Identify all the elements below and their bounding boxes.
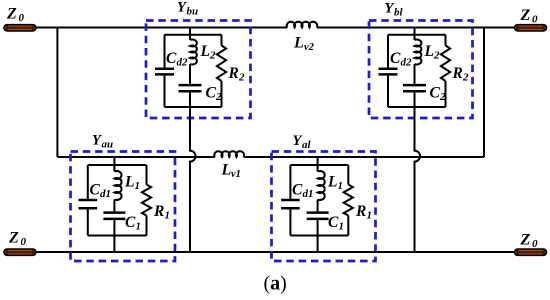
svg-text:Y: Y — [177, 0, 187, 16]
wire Ybu bottom bar — [165, 106, 222, 108]
label R2 (Ybl) — [452, 65, 470, 84]
label R1 (Yal) — [355, 203, 372, 222]
svg-text:Z: Z — [6, 6, 17, 23]
node Yal top stub — [317, 157, 319, 165]
svg-text:Y: Y — [385, 1, 395, 17]
label Ybl — [385, 1, 404, 19]
label Cd2 (Ybu) — [166, 50, 188, 69]
svg-text:Z: Z — [8, 230, 19, 247]
inductor L2 (Ybl middle branch) — [415, 35, 422, 84]
svg-text:L: L — [424, 43, 434, 60]
wire right riser (top rail to middle rail) — [483, 28, 485, 158]
svg-text:1: 1 — [165, 210, 171, 222]
inductor L1 (Yal middle branch) — [318, 165, 325, 211]
svg-text:Z: Z — [520, 7, 531, 24]
svg-text:C: C — [90, 182, 101, 199]
capacitor C2 (Ybu middle branch) — [179, 85, 202, 107]
wire top rail right segment — [317, 27, 515, 29]
wire Yal drop to bottom rail — [317, 236, 319, 253]
svg-text:bl: bl — [394, 7, 404, 19]
label L2 (Ybl) — [424, 43, 441, 62]
wire middle rail segment 1 — [57, 156, 214, 158]
svg-text:L: L — [293, 35, 304, 52]
shunt box Yau dashed outline — [71, 152, 176, 262]
node Ybl top stub — [414, 28, 416, 35]
svg-text:C: C — [206, 85, 217, 102]
wire Yal top bar — [290, 164, 348, 166]
svg-text:d1: d1 — [303, 188, 314, 200]
svg-text:2: 2 — [209, 50, 216, 62]
wire Yau drop to bottom rail — [113, 236, 115, 253]
capacitor Cd1 (Yau left branch) — [79, 165, 98, 236]
svg-text:d2: d2 — [177, 57, 189, 69]
resistor R2 (Ybu right branch) — [217, 35, 226, 107]
capacitor C2 (Ybl middle branch) — [403, 85, 426, 107]
resistor R1 (Yau right branch) — [142, 165, 151, 236]
label Z0 bottom-right — [520, 232, 539, 251]
label Cd2 (Ybl) — [390, 50, 412, 69]
resistor R2 (Ybl right branch) — [441, 35, 450, 107]
label Ybu — [177, 0, 198, 18]
svg-text:1: 1 — [367, 210, 373, 222]
svg-text:d2: d2 — [401, 57, 413, 69]
svg-text:Z: Z — [520, 232, 531, 249]
label Cd1 (Yau) — [90, 182, 112, 201]
capacitor C1 (Yal middle branch) — [307, 213, 329, 236]
svg-text:R: R — [153, 203, 164, 220]
svg-text:al: al — [302, 139, 312, 151]
capacitor Cd2 (Ybl left branch) — [379, 35, 398, 107]
svg-text:0: 0 — [21, 236, 27, 248]
label Lv2 — [293, 35, 315, 54]
svg-text:v1: v1 — [231, 169, 241, 180]
label C1 (Yau) — [125, 214, 141, 233]
svg-text:C: C — [390, 50, 401, 67]
label Cd1 (Yal) — [292, 182, 314, 201]
label C2 (Ybu) — [206, 85, 223, 104]
capacitor C1 (Yau middle branch) — [103, 213, 125, 236]
port Z0 top-right — [515, 25, 547, 31]
node Yau top stub — [113, 157, 115, 165]
svg-text:1: 1 — [136, 221, 142, 233]
svg-text:R: R — [452, 65, 463, 82]
svg-text:v2: v2 — [304, 42, 315, 53]
svg-text:C: C — [328, 214, 339, 231]
svg-text:1: 1 — [338, 180, 344, 192]
label C1 (Yal) — [328, 214, 344, 233]
inductor Lv1 — [214, 151, 244, 157]
wire Ybu top bar — [165, 34, 222, 36]
shunt box Ybu dashed outline — [146, 21, 251, 119]
svg-text:d1: d1 — [100, 188, 111, 200]
port Z0 bottom-right — [515, 249, 547, 255]
wire Ybu drop to bottom rail (hops over middle rail) — [190, 107, 196, 252]
svg-text:C: C — [292, 182, 303, 199]
svg-text:C: C — [125, 214, 136, 231]
svg-text:0: 0 — [532, 238, 538, 250]
label Z0 top-left — [6, 6, 25, 25]
wire top rail left segment — [36, 27, 287, 29]
label L1 (Yau) — [124, 174, 140, 193]
shunt box Ybl dashed outline — [369, 21, 473, 119]
svg-text:2: 2 — [462, 72, 469, 84]
svg-text:L: L — [124, 174, 134, 191]
svg-text:2: 2 — [238, 72, 245, 84]
svg-text:L: L — [200, 43, 210, 60]
svg-text:0: 0 — [532, 14, 538, 26]
wire Ybl top bar — [388, 34, 446, 36]
label C2 (Ybl) — [430, 85, 447, 104]
label Yau — [92, 132, 113, 150]
port Z0 top-left — [4, 25, 36, 31]
wire Yau bottom bar — [88, 235, 147, 237]
svg-text:Y: Y — [92, 132, 102, 148]
label R2 (Ybu) — [228, 65, 246, 84]
label Z0 top-right — [520, 7, 539, 26]
label Z0 bottom-left — [8, 230, 27, 249]
wire left riser (top rail to middle rail) — [56, 28, 58, 158]
svg-text:au: au — [102, 138, 114, 150]
svg-text:L: L — [221, 162, 232, 179]
svg-text:L: L — [327, 174, 337, 191]
label L1 (Yal) — [327, 174, 343, 193]
inductor L2 (Ybu middle branch) — [190, 35, 197, 84]
svg-text:C: C — [166, 50, 177, 67]
svg-text:0: 0 — [19, 12, 25, 24]
label L2 (Ybu) — [200, 43, 217, 62]
wire Yau top bar — [88, 164, 147, 166]
svg-text:2: 2 — [433, 50, 440, 62]
node Ybu top stub — [189, 28, 191, 35]
svg-text:bu: bu — [187, 6, 199, 18]
resistor R1 (Yal right branch) — [344, 165, 353, 236]
svg-text:Y: Y — [293, 133, 303, 149]
port Z0 bottom-left — [4, 249, 36, 255]
wire middle rail segment 2 — [244, 156, 484, 158]
label R1 (Yau) — [153, 203, 170, 222]
wire Ybl drop to bottom rail (hops over middle rail) — [415, 107, 421, 252]
svg-text:1: 1 — [339, 221, 345, 233]
wire Ybl bottom bar — [388, 106, 446, 108]
wire Yal bottom bar — [290, 235, 348, 237]
label Lv1 — [221, 162, 241, 181]
svg-text:R: R — [228, 65, 239, 82]
svg-text:C: C — [430, 85, 441, 102]
capacitor Cd2 (Ybu left branch) — [155, 35, 174, 107]
inductor Lv2 — [287, 22, 318, 28]
label Yal — [293, 133, 312, 151]
shunt box Yal dashed outline — [272, 152, 376, 262]
svg-text:(a): (a) — [264, 273, 287, 295]
capacitor Cd1 (Yal left branch) — [281, 165, 300, 236]
wire bottom rail — [36, 251, 515, 253]
svg-text:1: 1 — [135, 180, 141, 192]
svg-text:R: R — [355, 203, 366, 220]
inductor L1 (Yau middle branch) — [114, 165, 121, 211]
